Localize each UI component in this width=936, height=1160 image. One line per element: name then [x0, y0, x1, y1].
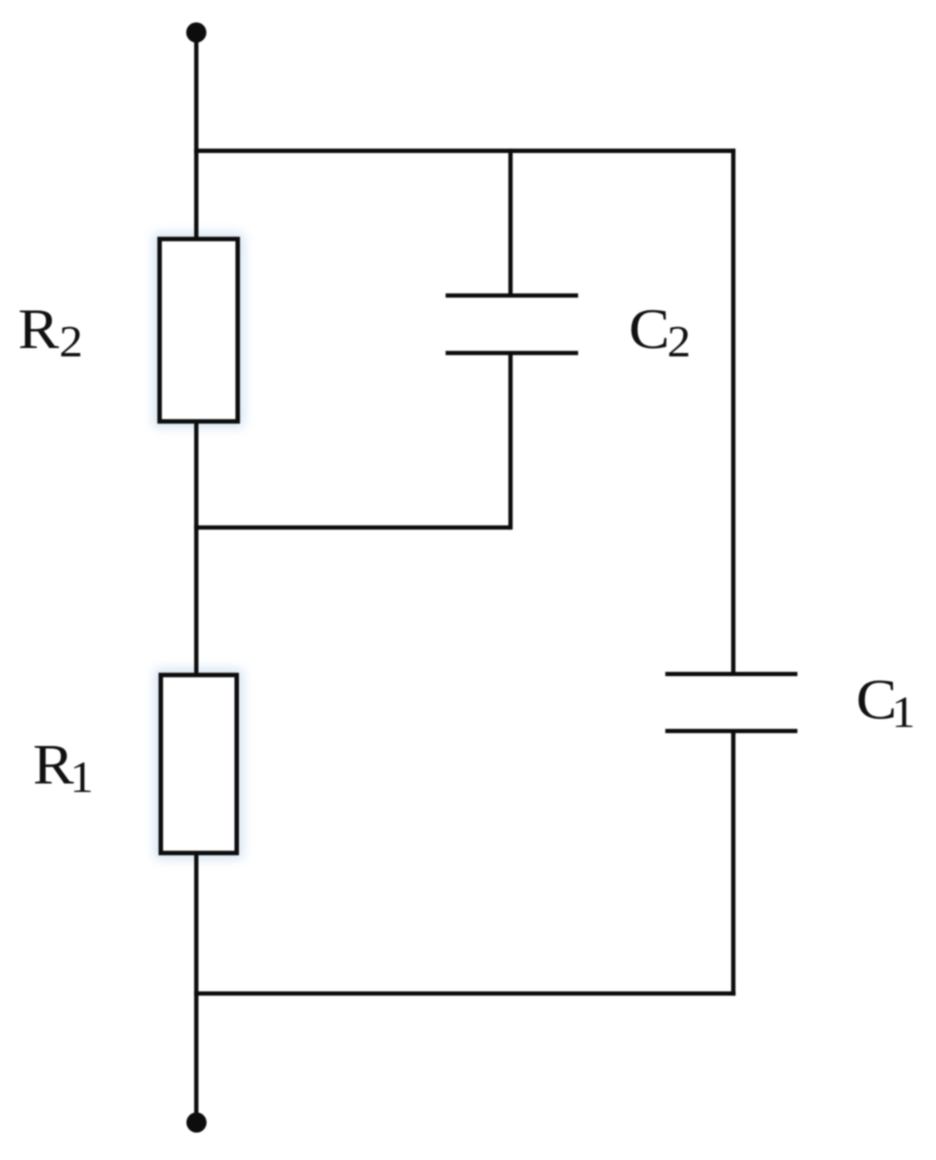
svg-text:R: R [18, 297, 60, 360]
svg-text:2: 2 [667, 317, 691, 366]
svg-text:1: 1 [70, 752, 94, 801]
svg-text:1: 1 [892, 687, 916, 736]
svg-text:2: 2 [59, 317, 83, 366]
svg-text:C: C [629, 297, 670, 360]
svg-text:R: R [33, 733, 75, 796]
